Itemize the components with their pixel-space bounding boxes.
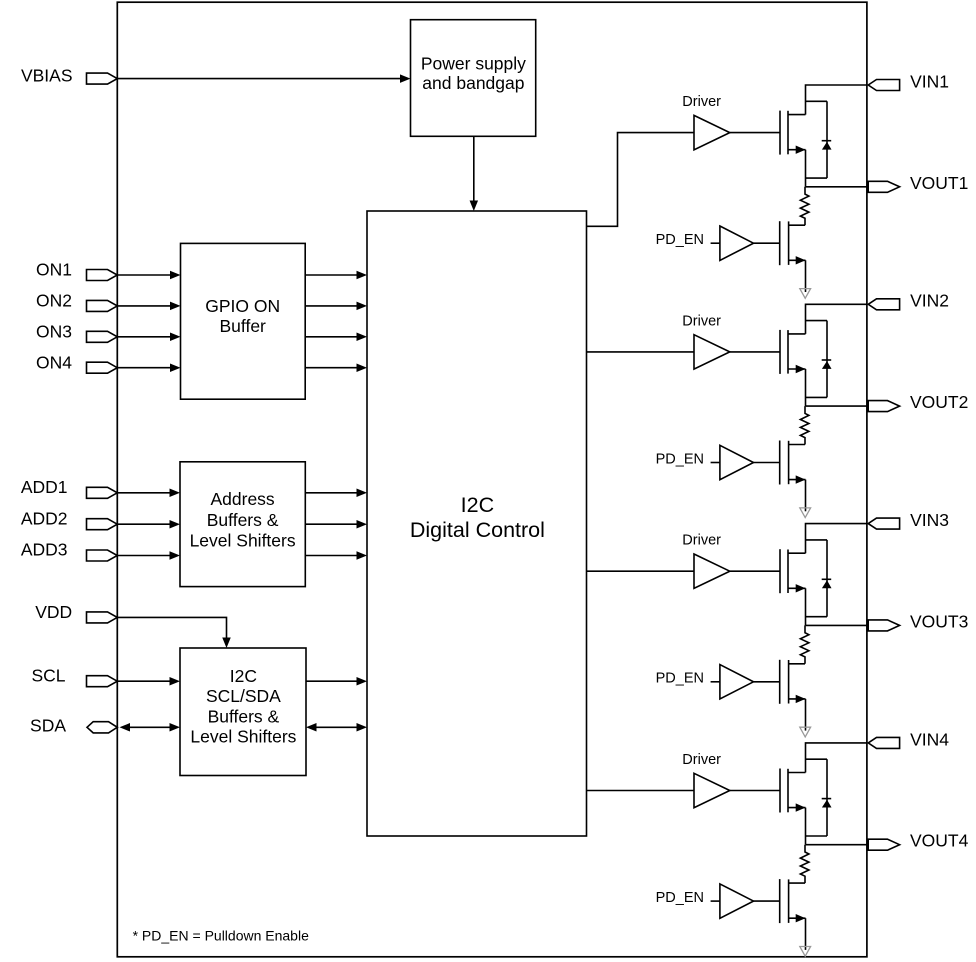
transistor pulldown FET ch1 <box>780 221 806 265</box>
buffer driver ch2 <box>694 335 730 369</box>
wire ON2 to GPIO buffer <box>117 302 180 311</box>
wire SDA to buffer (bidirectional) <box>120 723 181 732</box>
pin VOUT3 <box>868 620 899 631</box>
svg-text:ON4: ON4 <box>36 352 72 372</box>
wire VOUT3 <box>806 624 867 626</box>
wire pass FET source to VOUT4 node <box>805 808 807 845</box>
svg-text:Level Shifters: Level Shifters <box>190 531 296 551</box>
block U_PWR Power supply and bandgap <box>411 20 536 137</box>
wire VIN1 to pass FET drain <box>806 85 867 115</box>
wire pass FET source to VOUT2 node <box>805 369 807 406</box>
wire SCL to buffer <box>117 677 180 686</box>
svg-text:VIN1: VIN1 <box>910 71 949 91</box>
wire pulldown source to ground ch2 <box>805 480 807 512</box>
wire driver to pass FET gate ch1 <box>730 132 780 134</box>
wire PD_EN buffer to pulldown gate ch2 <box>754 462 780 464</box>
wire pulldown source to ground ch3 <box>805 699 807 731</box>
diode body diode ch1 <box>806 101 832 178</box>
svg-text:PD_EN: PD_EN <box>656 671 704 687</box>
wire PD_EN stub ch3 <box>711 681 720 683</box>
svg-text:Buffers &: Buffers & <box>207 510 279 530</box>
wire VOUT1 <box>806 186 867 188</box>
svg-text:VOUT3: VOUT3 <box>910 611 968 631</box>
wire VBIAS to power supply <box>117 74 410 83</box>
diode body diode ch3 <box>806 540 832 617</box>
wire driver to pass FET gate ch2 <box>730 351 780 353</box>
wire ADD3 to address buffer <box>117 551 180 560</box>
wire GPIO buffer out 2 to control <box>305 302 367 311</box>
buffer PD_EN ch2 <box>720 445 754 479</box>
svg-text:PD_EN: PD_EN <box>656 890 704 906</box>
wire control to driver ch2 <box>587 351 695 353</box>
wire PD_EN buffer to pulldown gate ch1 <box>754 242 780 244</box>
wire VIN4 to pass FET drain <box>806 743 867 773</box>
wire SCL buffer to control <box>306 677 367 686</box>
svg-text:Driver: Driver <box>682 94 721 110</box>
svg-text:VOUT1: VOUT1 <box>910 173 968 193</box>
svg-text:VOUT2: VOUT2 <box>910 392 968 412</box>
wire power supply to I2C digital control <box>470 136 479 211</box>
wire control to driver ch4 <box>587 790 695 792</box>
pin VIN4 <box>868 737 899 748</box>
svg-text:Driver: Driver <box>682 752 721 768</box>
svg-text:VBIAS: VBIAS <box>21 66 73 86</box>
wire control to driver ch3 <box>587 570 695 572</box>
buffer PD_EN ch3 <box>720 665 754 699</box>
wire PD_EN stub ch1 <box>711 242 720 244</box>
wire ON1 to GPIO buffer <box>117 271 180 280</box>
transistor pulldown FET ch3 <box>780 660 806 704</box>
svg-text:and bandgap: and bandgap <box>422 73 524 93</box>
transistor pulldown FET ch4 <box>780 879 806 923</box>
pin VBIAS <box>87 73 118 84</box>
svg-text:ON3: ON3 <box>36 322 72 342</box>
svg-text:VIN2: VIN2 <box>910 291 949 311</box>
buffer PD_EN ch1 <box>720 226 754 260</box>
block U_ADDR Address Buffers and Level Shifters <box>180 462 305 587</box>
svg-text:Buffer: Buffer <box>220 316 267 336</box>
wire VIN2 to pass FET drain <box>806 304 867 334</box>
svg-text:SDA: SDA <box>30 715 66 735</box>
pin ADD2 <box>87 519 118 530</box>
svg-text:Address: Address <box>210 489 274 509</box>
svg-text:Driver: Driver <box>682 533 721 549</box>
wire pass FET source to VOUT3 node <box>805 588 807 625</box>
svg-text:Driver: Driver <box>682 313 721 329</box>
pin ON4 <box>87 362 118 373</box>
wire ON3 to GPIO buffer <box>117 333 180 342</box>
pin VOUT2 <box>868 401 899 412</box>
pin ON1 <box>87 270 118 281</box>
ground ch2 <box>800 508 811 518</box>
wire ADD2 to address buffer <box>117 520 180 529</box>
transistor pass FET ch4 <box>780 769 806 813</box>
svg-text:ADD2: ADD2 <box>21 508 68 528</box>
wire ON4 to GPIO buffer <box>117 363 180 372</box>
diode body diode ch2 <box>806 321 832 398</box>
svg-text:ADD3: ADD3 <box>21 540 68 560</box>
svg-text:I2C: I2C <box>461 493 494 517</box>
pin ADD3 <box>87 550 118 561</box>
wire GPIO buffer out 3 to control <box>305 333 367 342</box>
resistor pulldown R ch1 <box>800 187 809 225</box>
block U_GPIO GPIO ON Buffer <box>181 243 306 399</box>
ground ch4 <box>800 947 811 957</box>
wire SDA buffer to control (bidirectional) <box>306 723 367 732</box>
wire VDD to SCL/SDA buffer <box>117 617 230 648</box>
pin VOUT1 <box>868 181 899 192</box>
block U_I2C I2C SCL/SDA Buffers and Level Shifters <box>180 648 306 776</box>
wire pulldown source to ground ch1 <box>805 260 807 292</box>
wire address buffer out 3 to control <box>305 551 367 560</box>
buffer driver ch3 <box>694 554 730 588</box>
ground ch1 <box>800 289 811 299</box>
svg-text:VIN3: VIN3 <box>910 510 949 530</box>
wire pass FET source to VOUT1 node <box>805 150 807 187</box>
pin VIN3 <box>868 518 899 529</box>
wire PD_EN stub ch2 <box>711 462 720 464</box>
wire VOUT2 <box>806 405 867 407</box>
wire VOUT4 <box>806 844 867 846</box>
svg-text:PD_EN: PD_EN <box>656 232 704 248</box>
svg-text:PD_EN: PD_EN <box>656 451 704 467</box>
resistor pulldown R ch4 <box>800 845 809 883</box>
pin ON3 <box>87 331 118 342</box>
ground ch3 <box>800 727 811 737</box>
pin ON2 <box>87 300 118 311</box>
svg-text:Buffers &: Buffers & <box>208 706 280 726</box>
svg-text:ON1: ON1 <box>36 260 72 280</box>
wire driver to pass FET gate ch3 <box>730 570 780 572</box>
wire control to driver ch1 <box>587 133 695 227</box>
pin VIN2 <box>868 299 899 310</box>
diode body diode ch4 <box>806 759 832 836</box>
svg-text:* PD_EN = Pulldown Enable: * PD_EN = Pulldown Enable <box>133 928 309 944</box>
wire pulldown source to ground ch4 <box>805 918 807 950</box>
pin VIN1 <box>868 80 899 91</box>
transistor pass FET ch2 <box>780 330 806 374</box>
IC boundary box <box>117 2 867 957</box>
wire ADD1 to address buffer <box>117 489 180 498</box>
transistor pass FET ch3 <box>780 549 806 593</box>
svg-text:Power supply: Power supply <box>421 54 526 74</box>
svg-text:GPIO ON: GPIO ON <box>205 296 280 316</box>
svg-text:VDD: VDD <box>35 602 72 622</box>
wire PD_EN stub ch4 <box>711 900 720 902</box>
pin SDA <box>87 722 117 733</box>
buffer driver ch4 <box>694 773 730 807</box>
svg-text:ON2: ON2 <box>36 291 72 311</box>
pin VDD <box>87 612 118 623</box>
pin VOUT4 <box>868 839 899 850</box>
block U_CTRL I2C Digital Control <box>367 211 587 836</box>
wire address buffer out 1 to control <box>305 489 367 498</box>
wire GPIO buffer out 1 to control <box>305 271 367 280</box>
transistor pulldown FET ch2 <box>780 441 806 485</box>
wire PD_EN buffer to pulldown gate ch4 <box>754 900 780 902</box>
buffer driver ch1 <box>694 115 730 149</box>
resistor pulldown R ch3 <box>800 625 809 663</box>
svg-text:Digital Control: Digital Control <box>410 518 545 542</box>
svg-text:VOUT4: VOUT4 <box>910 831 969 851</box>
wire PD_EN buffer to pulldown gate ch3 <box>754 681 780 683</box>
svg-text:ADD1: ADD1 <box>21 477 68 497</box>
wire GPIO buffer out 4 to control <box>305 363 367 372</box>
svg-text:I2C: I2C <box>230 666 257 686</box>
wire address buffer out 2 to control <box>305 520 367 529</box>
pin SCL <box>87 676 118 687</box>
svg-text:SCL: SCL <box>31 666 65 686</box>
pin ADD1 <box>87 487 118 498</box>
resistor pulldown R ch2 <box>800 406 809 444</box>
svg-text:VIN4: VIN4 <box>910 729 949 749</box>
transistor pass FET ch1 <box>780 111 806 155</box>
svg-text:SCL/SDA: SCL/SDA <box>206 686 281 706</box>
svg-text:Level Shifters: Level Shifters <box>190 727 296 747</box>
wire driver to pass FET gate ch4 <box>730 790 780 792</box>
buffer PD_EN ch4 <box>720 884 754 918</box>
wire VIN3 to pass FET drain <box>806 524 867 554</box>
